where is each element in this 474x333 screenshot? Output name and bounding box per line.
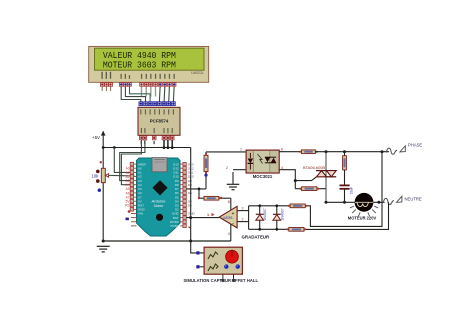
svg-text:1N4007: 1N4007 — [280, 208, 284, 220]
wire LCD E to PCF P2 — [130, 87, 151, 102]
svg-text:TX/D1: TX/D1 — [170, 224, 179, 228]
snubber resistor R4 — [343, 152, 347, 185]
diode D2 1N4007 — [273, 206, 284, 230]
diode D1 1N4007 — [256, 206, 267, 230]
svg-text:RS: RS — [125, 204, 129, 208]
wire PCF SDA to Arduino A4 — [120, 140, 145, 181]
wire R1 top to MOC pin1 — [206, 151, 246, 153]
potentiometer RV1 10k — [92, 148, 111, 241]
svg-text:1N4007: 1N4007 — [263, 208, 267, 220]
wire LCD D7 to PCF P7 — [172, 87, 175, 102]
svg-text:MOTEUR 3603 RPM: MOTEUR 3603 RPM — [103, 59, 176, 70]
wire LCD RW to PCF P1 — [125, 87, 145, 102]
wire gate node to triac gate — [295, 177, 316, 181]
sense path (neutral side) — [304, 202, 389, 229]
wire MOC pin2 to ground — [233, 169, 246, 171]
resistor R1 (MOC LED series, vertical) — [204, 152, 208, 189]
svg-text:D6: D6 — [188, 191, 192, 195]
svg-text:MOC3021: MOC3021 — [253, 174, 273, 179]
resistor R6 (sense bottom) — [249, 228, 304, 232]
svg-text:2: 2 — [226, 166, 228, 170]
wire Arduino D6 to R1 — [186, 188, 206, 190]
svg-text:VIN: VIN — [138, 212, 143, 216]
Arduino pin rows — [130, 162, 186, 227]
svg-text:1: 1 — [240, 147, 242, 151]
wire LCD D5 to PCF P5 — [163, 87, 166, 102]
svg-text:D8: D8 — [188, 183, 192, 187]
svg-text:PCF8574: PCF8574 — [150, 118, 169, 123]
sense path (phase side) — [305, 152, 382, 227]
svg-text:MOTEUR 220V: MOTEUR 220V — [348, 215, 377, 220]
svg-text:10k: 10k — [92, 173, 100, 178]
PHASE terminal — [387, 143, 423, 155]
IO expander U2 PCF8574 — [138, 102, 180, 144]
Arduino Nano U3 — [137, 158, 181, 236]
ground (left, below pot) — [97, 246, 110, 252]
Arduino left net labels (red) — [125, 167, 130, 208]
svg-text:LM393: LM393 — [223, 216, 233, 220]
svg-text:LM022L: LM022L — [191, 71, 204, 75]
bracket wires to op-amp inputs — [237, 206, 249, 230]
LCD pin terminals — [100, 82, 176, 96]
LCD display LM022L — [89, 46, 209, 82]
net vertical x=190.7 — [191, 148, 204, 253]
svg-text:4: 4 — [228, 232, 230, 236]
resistor R3 (gate) — [295, 187, 326, 191]
Arduino inside pin labels — [138, 162, 146, 215]
svg-text:+5V: +5V — [92, 135, 100, 140]
NEUTRE terminal — [383, 196, 422, 204]
wire PCF SCL to Arduino A5 — [121, 140, 141, 185]
svg-text:BTA06-600B: BTA06-600B — [303, 165, 325, 170]
+5V power symbol — [92, 131, 106, 148]
node rail +5V horizontal — [103, 147, 191, 149]
triac Q1 BTA06-600B — [303, 152, 336, 203]
wire MOC pin4 to gate node — [279, 170, 295, 189]
wire MOC pin6 to R2 / phase rail — [279, 151, 301, 153]
GND rail horizontal (bottom) — [103, 240, 231, 242]
optocoupler U4 MOC3021 — [246, 150, 279, 179]
svg-text:6: 6 — [281, 147, 283, 151]
pull-up resistor R7 — [198, 189, 231, 200]
snubber capacitor C1 — [340, 185, 354, 202]
phase rail wire — [315, 151, 389, 153]
comparator output wire to Arduino D3 — [186, 217, 219, 219]
wire pot wiper to Arduino A2 — [111, 174, 135, 177]
wire LCD RS to PCF P0 — [121, 87, 141, 102]
svg-text:Nano: Nano — [154, 203, 164, 208]
svg-text:PHASE: PHASE — [408, 143, 422, 148]
motor M1 — [326, 193, 385, 220]
svg-text:+: + — [232, 211, 235, 216]
hall sensor simulator box — [204, 247, 242, 274]
LCD pin name marks (VSS VDD VEE RS RW E D0-D7) — [101, 72, 174, 79]
op-amp U5 LM393 (comparator, pointing left) — [219, 198, 237, 241]
wire rail to Arduino A1 — [114, 148, 134, 173]
svg-text:SIMULATION CAPTEUR EFFET HALL: SIMULATION CAPTEUR EFFET HALL — [184, 278, 259, 283]
hall sensor box pins — [196, 251, 235, 281]
svg-text:10uF: 10uF — [349, 187, 353, 195]
resistor R2 (phase series) — [302, 150, 316, 154]
svg-text:3: 3 — [242, 206, 244, 210]
ground (MOC pin2) — [227, 172, 240, 190]
svg-text:8: 8 — [228, 200, 230, 204]
wire LCD D4 to PCF P4 — [158, 87, 161, 102]
wire PCF A0,A1,A2 to +5V rail — [164, 140, 172, 148]
resistor R5 (sense top) — [249, 204, 306, 208]
svg-text:1: 1 — [207, 213, 209, 217]
svg-text:GND: GND — [188, 212, 196, 216]
Arduino right net labels — [188, 162, 196, 215]
svg-text:NEUTRE: NEUTRE — [405, 196, 422, 201]
wire LCD D6 to PCF P6 — [168, 87, 171, 102]
svg-text:2: 2 — [242, 217, 244, 221]
svg-text:GRADATEUR: GRADATEUR — [242, 234, 271, 239]
junction dots on rail — [163, 146, 166, 149]
svg-text:D3: D3 — [188, 204, 192, 208]
